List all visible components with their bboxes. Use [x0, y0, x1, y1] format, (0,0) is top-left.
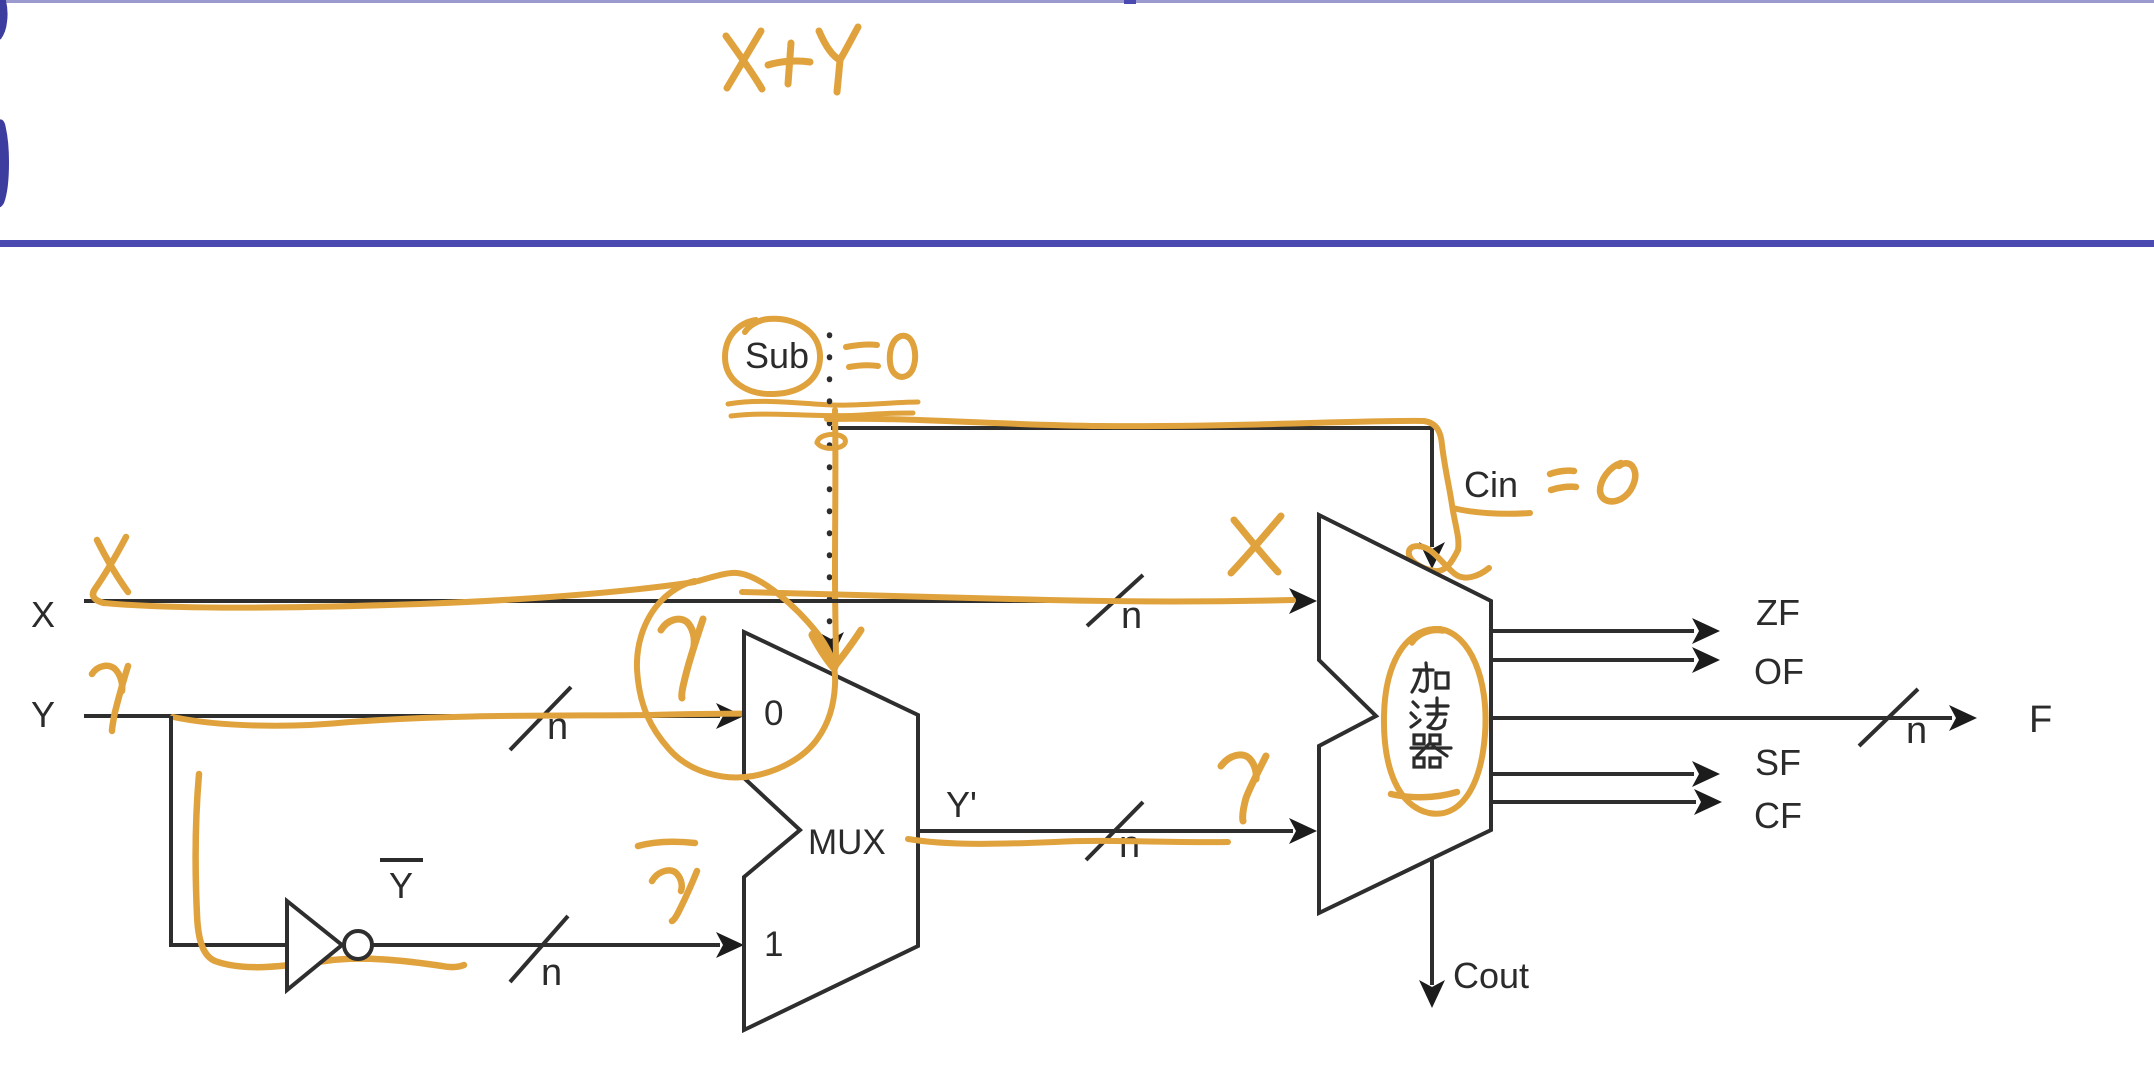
inverter bubble: [344, 931, 372, 959]
arrowhead Cin into adder: [1419, 542, 1445, 569]
annotation handwritten Y (gamma) at left of Y wire: [92, 666, 128, 731]
slash n on Y-bar wire: [510, 916, 568, 982]
arrowhead Y' into adder: [1289, 818, 1317, 844]
annotation ellipse around 加法器: [1384, 629, 1486, 814]
wire X input to adder: [84, 599, 1293, 603]
handwritten annotation X+Y (orange, top): [726, 27, 858, 92]
arrowhead SF: [1692, 761, 1720, 787]
svg-text:1: 1: [764, 925, 783, 964]
arrowhead Y-bar into MUX: [716, 932, 744, 958]
arrowhead Y into MUX: [716, 703, 744, 729]
svg-text:SF: SF: [1755, 742, 1801, 783]
annotation = 0 beside Sub: [846, 336, 915, 377]
svg-text:OF: OF: [1754, 651, 1804, 692]
svg-text:n: n: [547, 706, 568, 748]
annotation handwritten Y (gamma) inside blob: [661, 619, 703, 698]
wire CF output: [1491, 800, 1696, 804]
annotation circle around Sub: [725, 319, 820, 394]
svg-text:X: X: [31, 594, 55, 635]
wire Sub to Cin (horizontal then down): [831, 428, 1432, 547]
svg-text:0: 0: [764, 694, 783, 733]
wire Y branch down to inverter: [171, 716, 287, 945]
wire Cout from adder bottom: [1430, 859, 1434, 985]
label 器 (drawn glyph): [1411, 735, 1451, 767]
arrowhead ZF: [1692, 618, 1720, 644]
label Y-bar above inverter: [380, 858, 423, 862]
svg-text:Y: Y: [31, 694, 55, 735]
annotation ellipse top hook: [1412, 631, 1443, 643]
annotation wavy line along X wire: [104, 582, 695, 608]
annotation wavy line along Y wire: [173, 714, 775, 726]
annotation = 0 beside Cin: [1550, 463, 1635, 501]
svg-text:Cout: Cout: [1453, 955, 1529, 996]
arrowhead X into adder: [1289, 588, 1317, 614]
wire OF output: [1491, 658, 1694, 662]
slash n on F wire: [1859, 689, 1918, 746]
arrowhead F: [1949, 705, 1977, 731]
annotation orange vertical stroke along Y branch: [196, 774, 464, 967]
annotation wavy line along Y' wire: [908, 839, 1228, 844]
svg-text:CF: CF: [1754, 795, 1802, 836]
slash n on Y' wire: [1086, 802, 1143, 860]
annotation wavy underline under Cin: [1453, 508, 1530, 514]
wire Y' from MUX to adder: [918, 829, 1293, 833]
svg-text:Y: Y: [389, 865, 413, 906]
annotation blob circle around MUX 0 input: [637, 573, 835, 778]
annotation handwritten Y (gamma) above Y' wire: [1221, 755, 1266, 821]
wire Y input to MUX 0: [84, 714, 720, 718]
annotation handwritten Y-bar near MUX 1 input: [638, 842, 697, 921]
slash n on X wire: [1087, 575, 1143, 626]
annotation underline below Sub 1: [728, 401, 918, 405]
adder body (ALU shape): [1319, 515, 1491, 913]
svg-text:Y': Y': [946, 784, 977, 825]
annotation underline below Sub 2: [731, 413, 913, 416]
svg-text:Sub: Sub: [745, 335, 809, 376]
wire ZF output: [1491, 629, 1694, 633]
mux MUX body: [744, 632, 918, 1030]
annotation long squiggle along Sub-Cin wire, loop at Cin arrow: [827, 419, 1489, 578]
svg-text:ZF: ZF: [1756, 592, 1800, 633]
wire F output: [1491, 716, 1952, 720]
annotation underline stroke inside ellipse: [1391, 792, 1457, 797]
faint top edge line: [0, 0, 2154, 3]
annotation handwritten X at left of X wire: [93, 537, 128, 603]
wire SF output: [1491, 772, 1694, 776]
svg-text:n: n: [1119, 824, 1140, 866]
wire Y-bar from inverter to MUX 1: [372, 943, 720, 947]
blue horizontal divider rule: [0, 240, 2154, 247]
arrowhead OF: [1692, 647, 1720, 673]
label 法 (drawn glyph): [1411, 698, 1448, 729]
arrowhead Cout: [1419, 980, 1445, 1008]
dashed select line Sub to MUX: [827, 335, 833, 636]
slash n on Y wire: [510, 687, 571, 750]
label 加 (drawn glyph): [1412, 663, 1448, 692]
blue corner glyph fragment top: [0, 0, 8, 40]
svg-text:F: F: [2029, 699, 2052, 741]
svg-text:MUX: MUX: [808, 823, 886, 862]
inverter (NOT gate): [287, 901, 342, 990]
annotation orange stroke along select line with V arrowhead: [813, 410, 861, 667]
svg-text:n: n: [1906, 710, 1927, 752]
arrowhead select into MUX: [818, 632, 844, 660]
annotation handwritten X near adder X input: [1231, 516, 1281, 573]
blue corner glyph fragment bottom: [0, 119, 9, 207]
arrowhead CF: [1694, 789, 1722, 815]
svg-text:Cin: Cin: [1464, 464, 1518, 505]
annotation small loop at Sub wire junction: [817, 434, 845, 448]
svg-text:n: n: [541, 952, 562, 994]
